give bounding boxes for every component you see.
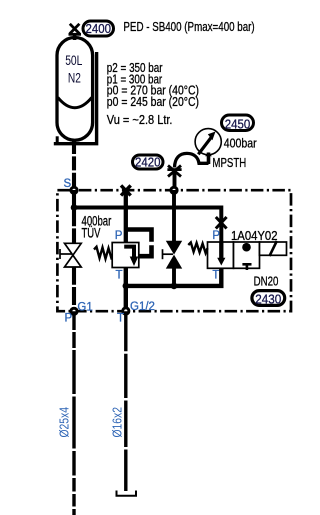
wire test point to port [173, 171, 177, 190]
svg-text:TÜV: TÜV [82, 226, 101, 241]
solenoid box [260, 242, 287, 255]
pressure gauge 2450 [195, 129, 221, 155]
svg-text:p0 = 245 bar (20°C): p0 = 245 bar (20°C) [107, 95, 199, 109]
TUV valve lower wire to G1 [72, 267, 76, 312]
valve flow arrow in left square [219, 242, 223, 259]
mounting bracket [54, 52, 97, 144]
svg-text:T: T [212, 270, 219, 282]
shut-off valve actuator tick [163, 249, 174, 259]
TUV valve actuator tick [60, 249, 72, 259]
svg-text:N2: N2 [68, 70, 81, 85]
wire stem X to accumulator top [73, 33, 77, 40]
svg-text:2430: 2430 [255, 292, 281, 307]
svg-text:400bar: 400bar [224, 136, 258, 151]
oval label 2450 [222, 115, 254, 131]
ball seat in right square [242, 243, 251, 252]
relief column wire [124, 190, 128, 243]
shut-off valve lower wire [172, 268, 176, 286]
safety block dashed enclosure [57, 190, 291, 311]
relief valve 400bar: spring [94, 247, 112, 260]
port S ring [71, 187, 77, 193]
svg-text:Vu = ~2.8 Ltr.: Vu = ~2.8 Ltr. [107, 113, 173, 127]
junction dot [123, 283, 130, 290]
TUV safety valve column upper [72, 190, 76, 244]
svg-text:2420: 2420 [135, 155, 161, 170]
relief valve pilot line [126, 230, 152, 257]
plugged port X above accumulator [69, 24, 82, 35]
plug X on enclosure top [121, 185, 131, 195]
valve return spring [188, 242, 207, 253]
accumulator 2400 body [57, 38, 93, 141]
svg-text:P: P [65, 312, 73, 324]
svg-text:G1/2: G1/2 [130, 301, 155, 313]
svg-text:P: P [212, 230, 220, 242]
junction dot [171, 283, 178, 290]
accumulator separator arc [58, 97, 92, 107]
valve T wire to tank manifold [126, 268, 222, 286]
svg-text:2450: 2450 [225, 116, 251, 131]
svg-text:T: T [117, 312, 124, 324]
oval label 2430 [252, 291, 285, 306]
oval label 2420 [133, 155, 164, 169]
svg-text:DN20: DN20 [254, 273, 279, 288]
svg-text:G1: G1 [77, 301, 92, 313]
port G1/2 ring [123, 308, 129, 314]
hose to gauge [175, 153, 209, 167]
relief valve body [112, 243, 139, 268]
oval label 2400 [83, 21, 114, 36]
svg-text:50L: 50L [65, 53, 83, 68]
shut-off valve column upper [172, 190, 176, 242]
relief valve T wire [124, 268, 128, 312]
solenoid valve body left square [208, 242, 234, 268]
test point X 2420 [167, 166, 181, 177]
TUV safety valve [65, 243, 82, 267]
port ring test point [171, 187, 177, 193]
svg-text:Ø16x2: Ø16x2 [110, 407, 125, 438]
gauge stem [207, 153, 211, 165]
pipe T down (Ø16x2) [124, 311, 127, 491]
junction dot [71, 204, 78, 211]
tank symbol [117, 491, 137, 496]
gas precharge text block [107, 61, 199, 127]
plug X above valve P [216, 217, 227, 229]
svg-text:1A04Y02: 1A04Y02 [231, 228, 278, 243]
svg-text:MPSTH: MPSTH [212, 155, 246, 170]
relief valve flow arrow [124, 247, 134, 259]
svg-text:2400: 2400 [86, 21, 112, 36]
port G1 ring [71, 308, 77, 314]
pipe P down (Ø25x4) [72, 311, 75, 515]
svg-text:T: T [116, 270, 123, 282]
svg-text:Ø25x4: Ø25x4 [57, 407, 72, 438]
svg-text:P: P [115, 230, 123, 242]
internal manifold P [74, 190, 221, 242]
svg-text:PED - SB400 (Pmax=400 bar): PED - SB400 (Pmax=400 bar) [123, 19, 254, 34]
wire accumulator to S port [72, 140, 76, 190]
solenoid slash [270, 241, 277, 256]
solenoid valve body right square [234, 242, 260, 268]
shut-off valve (filled) [166, 241, 182, 269]
